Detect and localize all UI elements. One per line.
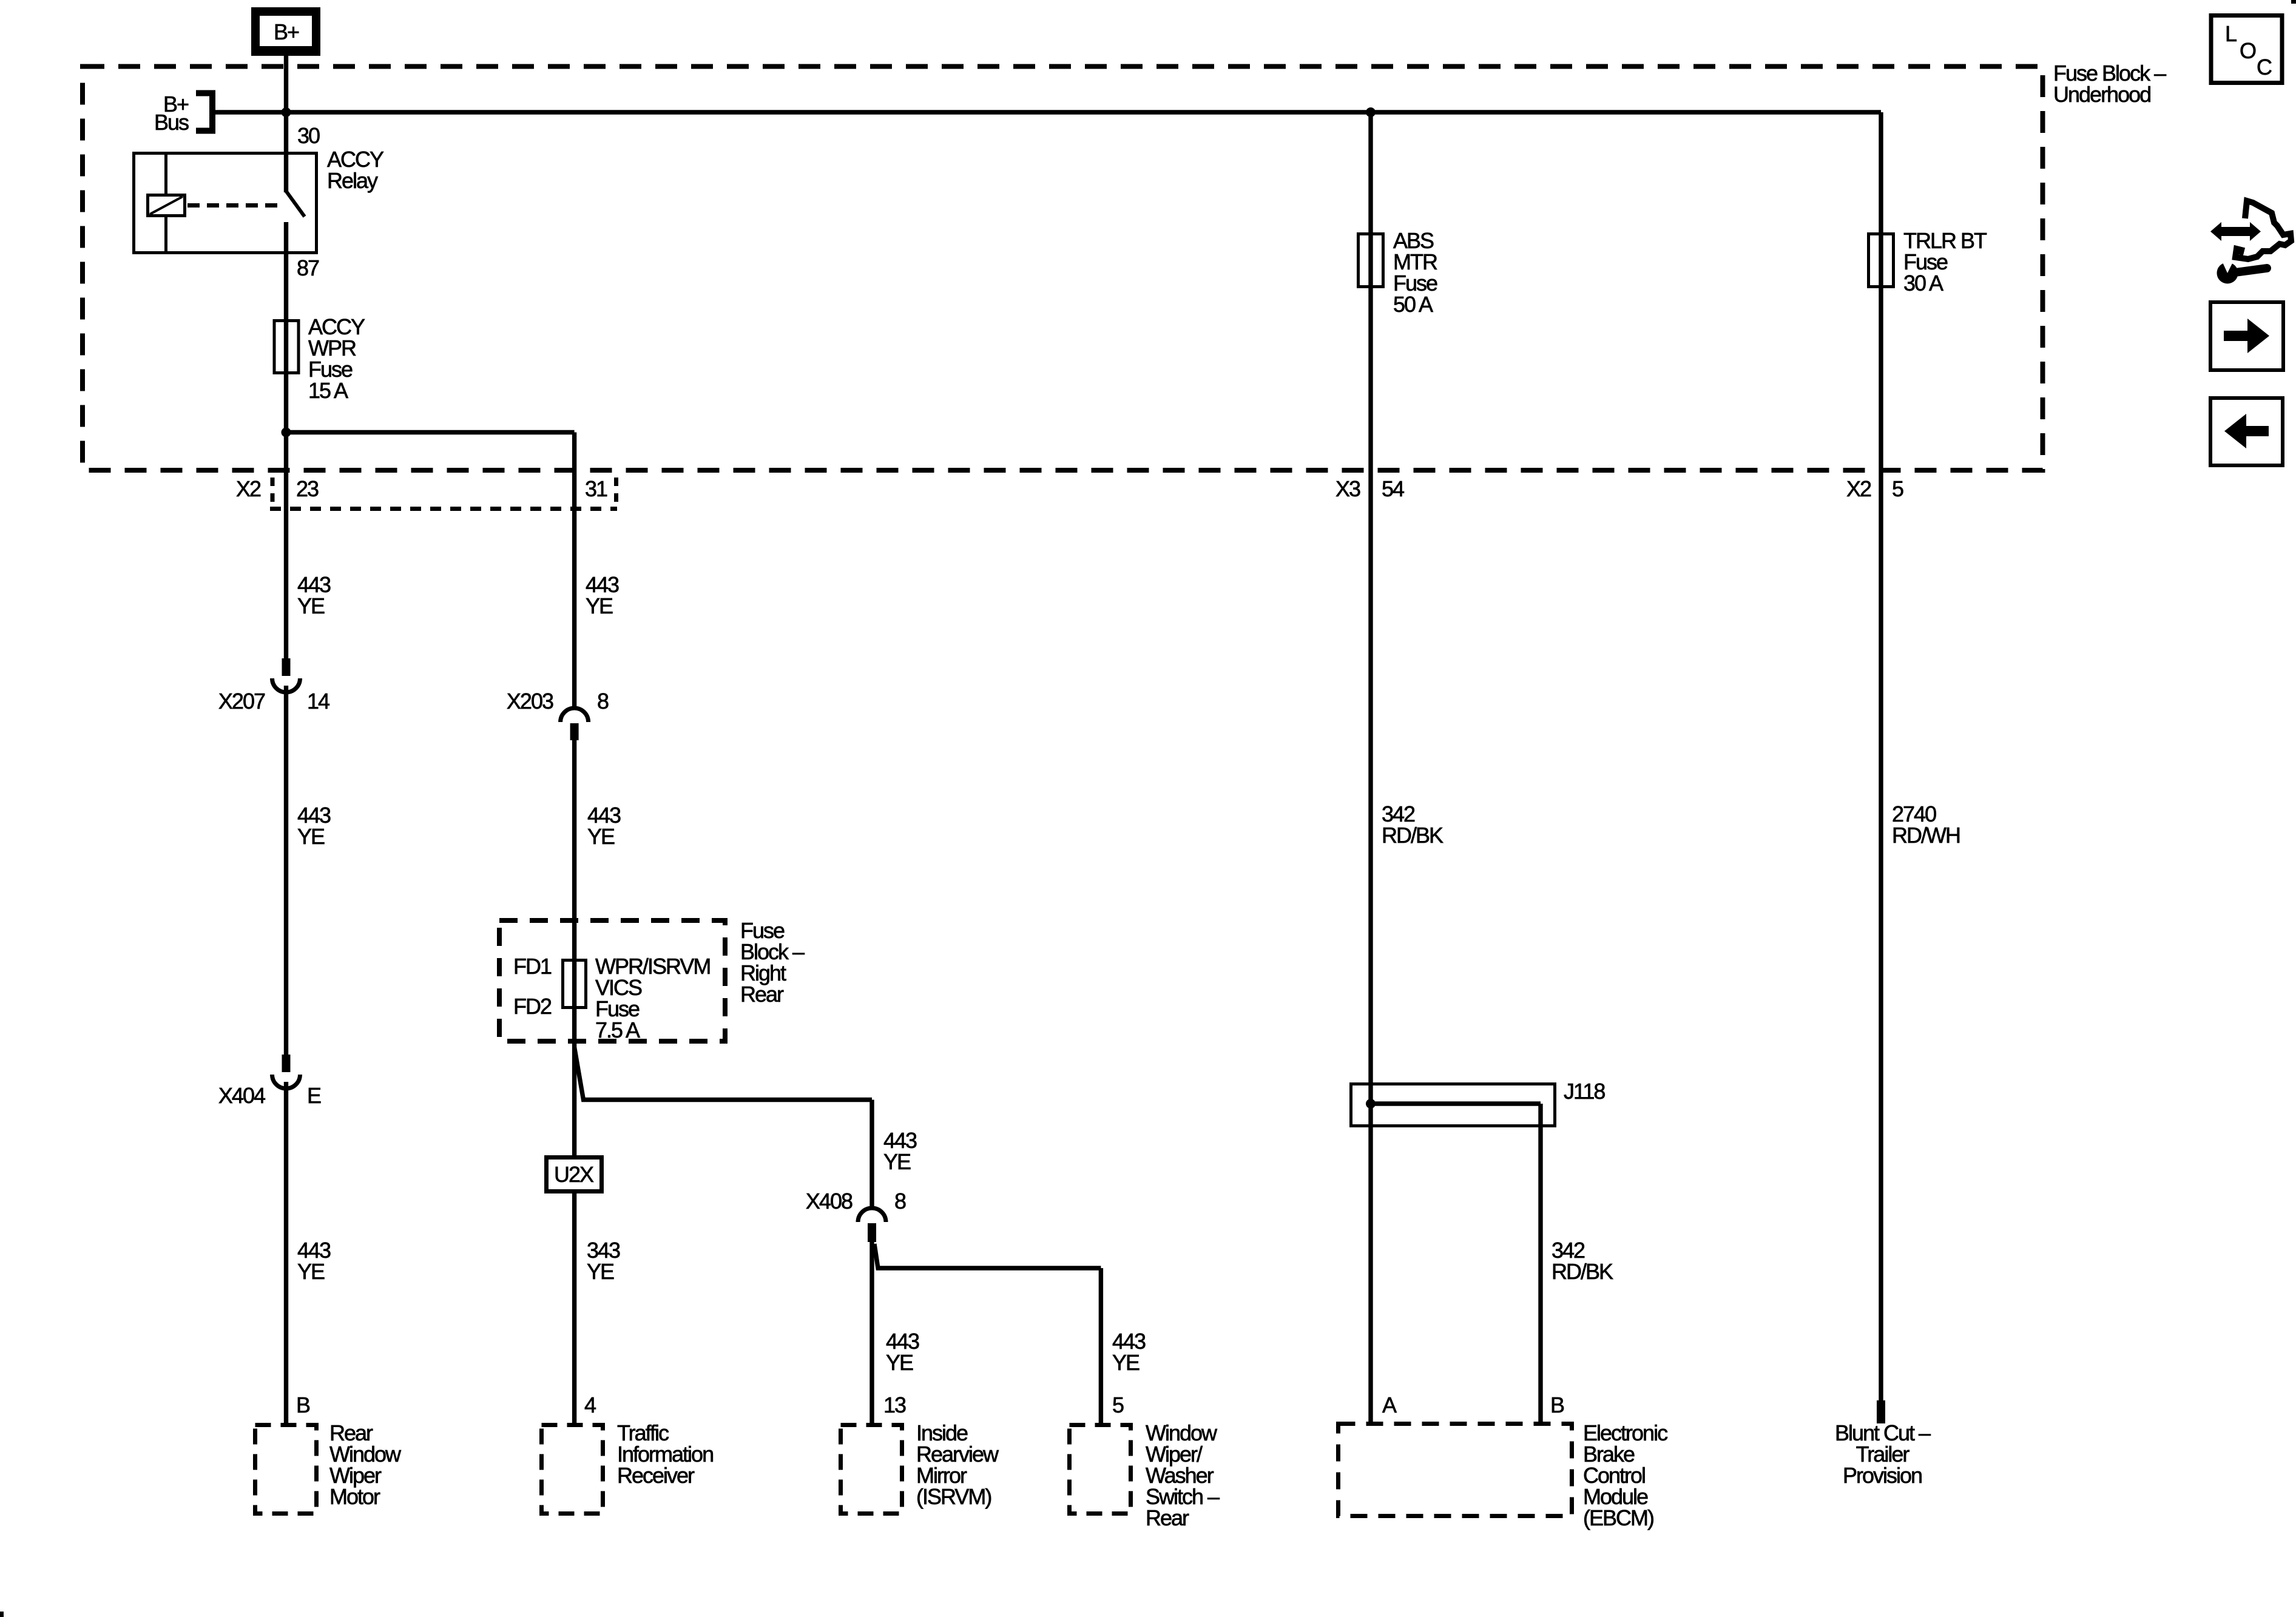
- svg-text:Provision: Provision: [1843, 1463, 1922, 1488]
- svg-text:YE: YE: [883, 1149, 911, 1174]
- svg-text:31: 31: [585, 476, 607, 501]
- svg-text:YE: YE: [297, 824, 325, 849]
- svg-text:54: 54: [1382, 476, 1404, 501]
- svg-text:YE: YE: [587, 1259, 614, 1284]
- svg-text:Rear: Rear: [1146, 1505, 1189, 1530]
- svg-text:X2: X2: [236, 476, 261, 501]
- svg-text:Motor: Motor: [329, 1484, 380, 1509]
- svg-text:87: 87: [297, 255, 319, 280]
- svg-text:X2: X2: [1846, 476, 1871, 501]
- svg-text:L: L: [2225, 21, 2237, 46]
- svg-text:B+: B+: [274, 19, 299, 44]
- svg-text:Rear: Rear: [740, 982, 784, 1007]
- svg-text:30: 30: [297, 123, 320, 148]
- svg-text:X408: X408: [806, 1189, 853, 1214]
- svg-text:Receiver: Receiver: [617, 1463, 695, 1488]
- svg-text:50 A: 50 A: [1393, 292, 1433, 317]
- svg-text:14: 14: [307, 689, 329, 714]
- svg-text:30 A: 30 A: [1903, 271, 1943, 295]
- svg-text:RD/BK: RD/BK: [1382, 823, 1443, 848]
- svg-text:E: E: [307, 1083, 321, 1108]
- svg-text:Relay: Relay: [327, 168, 378, 193]
- svg-text:13: 13: [883, 1393, 906, 1417]
- svg-text:8: 8: [597, 689, 609, 714]
- svg-text:X203: X203: [507, 689, 553, 714]
- svg-text:5: 5: [1112, 1393, 1124, 1417]
- svg-text:4: 4: [584, 1393, 596, 1417]
- svg-text:YE: YE: [886, 1350, 913, 1375]
- svg-text:FD1: FD1: [513, 954, 552, 979]
- svg-text:YE: YE: [587, 824, 615, 849]
- svg-text:A: A: [1382, 1393, 1397, 1417]
- svg-text:J118: J118: [1564, 1079, 1605, 1104]
- svg-text:X404: X404: [218, 1083, 265, 1108]
- svg-text:(EBCM): (EBCM): [1583, 1505, 1653, 1530]
- svg-text:U2X: U2X: [554, 1162, 594, 1187]
- svg-text:RD/BK: RD/BK: [1551, 1259, 1613, 1284]
- svg-text:Bus: Bus: [154, 110, 189, 135]
- svg-text:FD2: FD2: [513, 994, 552, 1019]
- svg-text:(ISRVM): (ISRVM): [916, 1484, 991, 1509]
- svg-text:B: B: [1550, 1393, 1564, 1417]
- svg-text:YE: YE: [297, 1259, 325, 1284]
- svg-text:8: 8: [894, 1189, 906, 1214]
- svg-text:5: 5: [1892, 476, 1903, 501]
- svg-text:YE: YE: [297, 593, 325, 618]
- svg-text:Underhood: Underhood: [2053, 82, 2150, 107]
- svg-text:23: 23: [296, 476, 319, 501]
- svg-text:O: O: [2240, 38, 2256, 63]
- svg-text:7.5 A: 7.5 A: [595, 1018, 640, 1042]
- svg-text:C: C: [2257, 55, 2272, 79]
- svg-text:15 A: 15 A: [308, 378, 348, 403]
- svg-text:B: B: [296, 1393, 310, 1417]
- svg-text:X3: X3: [1335, 476, 1360, 501]
- svg-text:YE: YE: [1112, 1350, 1140, 1375]
- svg-text:RD/WH: RD/WH: [1892, 823, 1960, 848]
- svg-text:YE: YE: [586, 593, 613, 618]
- svg-text:X207: X207: [218, 689, 265, 714]
